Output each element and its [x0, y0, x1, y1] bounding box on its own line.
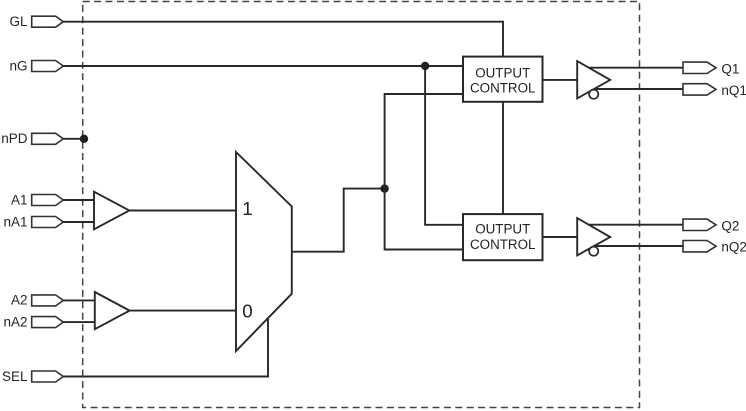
svg-text:nPD: nPD [1, 131, 28, 146]
pin nPD [32, 133, 64, 144]
pin Q2 [683, 219, 716, 230]
dashed functional boundary box [83, 2, 640, 408]
pin GL [32, 16, 64, 27]
multiplexer MUX [236, 152, 292, 351]
wire between output control blocks [502, 102, 504, 214]
wire nQ2 [590, 245, 683, 247]
svg-text:nQ2: nQ2 [721, 240, 746, 255]
output driver B2 (Q2/nQ2) [577, 218, 610, 255]
svg-text:SEL: SEL [2, 369, 28, 384]
wire mux output [292, 189, 385, 252]
svg-text:nQ1: nQ1 [721, 83, 746, 98]
svg-text:nG: nG [9, 58, 27, 73]
svg-text:nA2: nA2 [3, 314, 27, 329]
output control block 1 [463, 57, 543, 102]
wire Q2 [588, 224, 684, 226]
input buffer U2 (A2/nA2) [95, 292, 130, 329]
wire U2 output to mux input 0 [130, 310, 236, 312]
pin nA1 [32, 217, 64, 228]
wire mux node to upper output control [385, 94, 463, 189]
junction nG branch [421, 62, 429, 70]
wire nPD stub [63, 138, 84, 140]
inversion bubble B1 [589, 90, 598, 99]
pin A2 [32, 295, 64, 306]
pin Q1 [683, 62, 716, 73]
pin nG [32, 61, 64, 72]
svg-text:1: 1 [242, 198, 252, 219]
svg-text:OUTPUT: OUTPUT [475, 65, 530, 80]
svg-text:Q2: Q2 [721, 218, 739, 233]
pin nQ2 [683, 241, 716, 252]
wire mux node to lower output control [385, 189, 463, 250]
junction mux output node [380, 184, 388, 192]
wire output control 2 to driver [543, 236, 578, 238]
svg-text:0: 0 [242, 301, 252, 322]
wire GL to upper output control [63, 22, 503, 57]
svg-text:OUTPUT: OUTPUT [475, 221, 530, 236]
wire nQ1 [590, 88, 683, 90]
pin nA2 [32, 317, 64, 328]
svg-text:GL: GL [9, 14, 28, 29]
svg-text:Q1: Q1 [721, 61, 739, 76]
svg-text:CONTROL: CONTROL [470, 81, 535, 96]
wire nG branch to lower output control [425, 66, 463, 225]
wire nA2 to input buffer U2 [63, 321, 95, 323]
wire U1 output to mux input 1 [129, 210, 236, 212]
wire output control 1 to driver [543, 79, 578, 81]
svg-text:nA1: nA1 [3, 214, 27, 229]
wire nA1 to input buffer U1 [63, 221, 94, 223]
wire Q1 [588, 67, 684, 69]
svg-text:A2: A2 [11, 293, 28, 308]
inversion bubble B2 [589, 247, 598, 256]
pin A1 [32, 195, 64, 206]
output driver B1 (Q1/nQ1) [577, 61, 610, 98]
wire SEL to mux select [63, 318, 268, 377]
pin nQ1 [683, 84, 716, 95]
svg-text:CONTROL: CONTROL [470, 237, 535, 252]
output control block 2 [463, 214, 543, 260]
svg-text:A1: A1 [11, 192, 28, 207]
wire A1 to input buffer U1 [63, 199, 94, 201]
input buffer U1 (A1/nA1) [94, 192, 129, 230]
wire nG to upper output control [63, 65, 463, 67]
wire A2 to input buffer U2 [63, 299, 95, 301]
junction nPD [80, 135, 88, 143]
pin SEL [32, 371, 64, 382]
